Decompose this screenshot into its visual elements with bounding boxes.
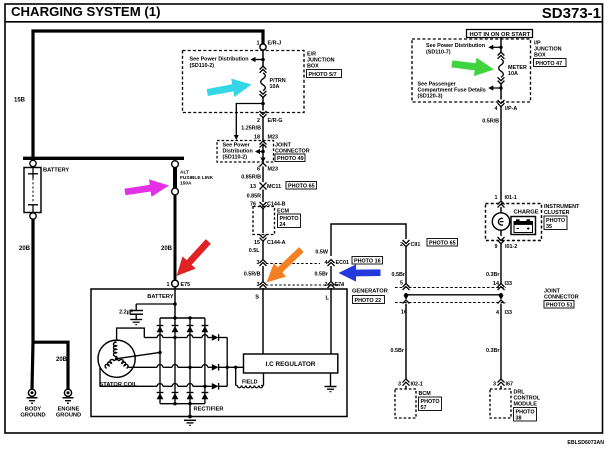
svg-text:See Power Distribution: See Power Distribution (190, 57, 249, 63)
wire inside ECM (262, 209, 264, 234)
svg-text:4: 4 (496, 310, 499, 316)
field coil (235, 367, 237, 385)
fuse P/TRN 10A (260, 66, 267, 97)
svg-text:10A: 10A (508, 71, 518, 77)
diode rectifier bottom leg2 (172, 393, 179, 400)
svg-text:(SD110-2): (SD110-2) (190, 63, 215, 69)
wire thick ALT feed down to E75 (174, 195, 177, 280)
diode rectifier top leg2 (172, 326, 179, 333)
svg-text:0.5W: 0.5W (315, 250, 328, 256)
svg-text:0.5Br: 0.5Br (392, 272, 406, 278)
svg-text:0.5Br: 0.5Br (391, 348, 405, 354)
connector I01-2 pin 9 (498, 237, 505, 244)
svg-text:5: 5 (400, 281, 403, 287)
annotation cyan arrow at P/TRN fuse (206, 75, 254, 101)
svg-text:I33: I33 (505, 310, 513, 316)
wire into DRL (500, 386, 502, 389)
svg-text:24: 24 (280, 222, 286, 228)
svg-text:CONNECTOR: CONNECTOR (544, 295, 579, 301)
svg-text:M23: M23 (268, 135, 279, 141)
svg-text:9: 9 (495, 244, 498, 250)
svg-text:E/R-G: E/R-G (268, 118, 283, 124)
svg-text:1: 1 (167, 282, 170, 288)
svg-text:20B: 20B (19, 246, 31, 252)
dashed connector line E74 (266, 284, 344, 286)
svg-text:PHOTO 5/7: PHOTO 5/7 (309, 72, 337, 78)
svg-text:0.5Br: 0.5Br (315, 272, 329, 278)
svg-text:6: 6 (257, 167, 260, 173)
BCM box dashed (395, 389, 416, 418)
annotation red arrow at E75 (170, 235, 215, 282)
svg-text:E75: E75 (181, 282, 191, 288)
svg-text:PHOTO 16: PHOTO 16 (354, 259, 381, 265)
svg-text:PHOTO 51: PHOTO 51 (546, 303, 573, 309)
svg-text:CII1: CII1 (411, 242, 421, 248)
wire 0.5Br to joint connector (405, 247, 407, 284)
svg-text:I67: I67 (506, 382, 514, 388)
svg-text:2: 2 (325, 282, 328, 288)
svg-text:38: 38 (516, 416, 522, 422)
wire phase C line to rectifier (100, 368, 157, 387)
node branch see passenger (500, 84, 502, 100)
svg-text:I/P-A: I/P-A (505, 106, 517, 112)
rectifier top rail (160, 317, 205, 319)
wire into BCM (405, 386, 407, 389)
ground rectifier to case (189, 404, 191, 417)
wire 0.5R/B down to cluster (500, 106, 502, 201)
node joint right (499, 293, 503, 297)
svg-text:BATTERY: BATTERY (43, 168, 69, 174)
diode rectifier top leg3 (187, 326, 194, 333)
svg-text:0.5R/B: 0.5R/B (482, 119, 499, 125)
svg-text:(SD120-3): (SD120-3) (418, 94, 443, 100)
diode rectifier bottom leg1 (157, 393, 164, 400)
svg-text:See Power Distribution: See Power Distribution (426, 43, 485, 49)
svg-text:CLUSTER: CLUSTER (544, 210, 570, 216)
svg-text:2: 2 (257, 118, 260, 124)
svg-text:BATTERY: BATTERY (147, 294, 173, 300)
svg-text:GROUND: GROUND (20, 413, 45, 419)
wire 0.5Br (330, 266, 332, 281)
svg-text:10A: 10A (270, 84, 280, 90)
svg-text:3: 3 (493, 382, 496, 388)
wire 1.25R/B (262, 118, 264, 142)
connector E/R-J pin 1 (260, 44, 266, 50)
node M23 mid (261, 150, 265, 154)
trio bus vertical (226, 338, 228, 387)
diode rectifier bottom leg4 (202, 393, 209, 400)
wire through cluster (500, 207, 502, 236)
wire from HOT box down (500, 38, 502, 53)
wire L up from E74 over to CII1 (331, 224, 406, 256)
svg-text:HOT IN ON OR START: HOT IN ON OR START (470, 32, 531, 38)
svg-text:GROUND: GROUND (56, 413, 81, 419)
node stator center (115, 357, 118, 360)
battery symbol (24, 168, 41, 213)
svg-text:PHOTO 22: PHOTO 22 (355, 298, 382, 304)
svg-text:EC01: EC01 (336, 260, 350, 266)
svg-text:1: 1 (257, 41, 260, 47)
annotation orange arrow at S pin (260, 243, 307, 289)
svg-text:PHOTO 65: PHOTO 65 (288, 184, 315, 190)
svg-text:SD373-1: SD373-1 (542, 5, 601, 22)
joint connector bus line (406, 294, 501, 296)
svg-text:15B: 15B (14, 98, 26, 104)
svg-text:CHARGING SYSTEM (1): CHARGING SYSTEM (1) (11, 4, 160, 19)
wire stator phase A lead (117, 328, 145, 340)
lamp charge indicator (492, 213, 509, 230)
svg-text:FUSIBLE LINK: FUSIBLE LINK (180, 175, 214, 181)
svg-text:I01-2: I01-2 (505, 244, 517, 250)
svg-text:4: 4 (325, 260, 328, 266)
svg-text:0.5R/B: 0.5R/B (244, 272, 261, 278)
svg-text:E/R-J: E/R-J (268, 41, 282, 47)
wire 0.5L (262, 241, 264, 259)
wire thick top run from battery bus to E/R-J (33, 31, 263, 158)
svg-text:FIELD: FIELD (242, 379, 258, 385)
svg-text:PHOTO 49: PHOTO 49 (277, 156, 304, 162)
wire L pin into generator (330, 288, 332, 354)
svg-text:MC11: MC11 (267, 184, 281, 190)
wire 0.5Br down to BCM (405, 304, 407, 380)
svg-text:57: 57 (421, 405, 427, 411)
svg-text:EBLSD6073AN: EBLSD6073AN (567, 440, 604, 446)
svg-text:I33: I33 (505, 281, 513, 287)
wire phase B line to rectifier (129, 364, 212, 367)
node fuse top branch (261, 58, 265, 62)
I/P junction box dashed outline (412, 39, 531, 102)
IC regulator box (244, 354, 338, 373)
fusible link ALT 150A (172, 161, 179, 168)
svg-text:CHARGE: CHARGE (514, 210, 539, 216)
generator box outline (91, 289, 347, 417)
wire thick battery negative down to body ground (32, 219, 33, 389)
svg-text:4: 4 (495, 106, 498, 112)
svg-text:RECTIFIER: RECTIFIER (194, 406, 224, 412)
node battery top terminal (30, 160, 36, 166)
stator winding vertical (114, 342, 117, 356)
battery pictogram (511, 217, 536, 235)
diode rectifier bottom leg3 (187, 393, 194, 400)
svg-text:150A: 150A (180, 181, 192, 187)
connector C144-A pin 15 (260, 235, 267, 242)
svg-text:BOX: BOX (534, 53, 546, 59)
node capacitor branch (173, 302, 177, 306)
capacitor 2.2uF (135, 304, 137, 310)
svg-text:2: 2 (400, 242, 403, 248)
svg-text:15: 15 (254, 240, 260, 246)
svg-text:13: 13 (250, 184, 256, 190)
wire 0.3Br to joint connector (500, 244, 502, 284)
svg-text:PHOTO 47: PHOTO 47 (536, 61, 563, 67)
wire trio output to regulator (227, 366, 243, 368)
ground engine ground symbol (63, 389, 74, 403)
svg-text:1: 1 (495, 195, 498, 201)
svg-text:PHOTO 65: PHOTO 65 (429, 241, 456, 247)
dashed connector line EC01 (266, 263, 320, 265)
svg-text:I.C REGULATOR: I.C REGULATOR (266, 361, 316, 368)
svg-text:E74: E74 (335, 282, 345, 288)
svg-text:2.2µF: 2.2µF (119, 310, 134, 316)
svg-text:C144-A: C144-A (267, 240, 286, 246)
connector I/P-A pin 4 (498, 100, 505, 107)
joint connector M23 symbol (260, 141, 267, 148)
svg-text:S: S (255, 295, 259, 301)
ECM box dashed (253, 207, 275, 235)
node joint left (404, 293, 408, 297)
DRL control module dashed box (490, 389, 511, 418)
annotation blue arrow at 0.5Br (339, 264, 381, 281)
diode rectifier top leg4 (202, 326, 209, 333)
svg-text:M23: M23 (268, 167, 279, 173)
svg-text:3: 3 (398, 382, 401, 388)
svg-text:20B: 20B (161, 246, 173, 252)
svg-text:35: 35 (546, 224, 552, 230)
wire 0.5R/B (262, 266, 264, 281)
node branch see power distribution (499, 46, 502, 49)
svg-text:18: 18 (254, 135, 260, 141)
svg-text:0.3Br: 0.3Br (486, 348, 500, 354)
connector E/R-G pin 2 (260, 111, 267, 118)
instrument cluster dashed box (486, 204, 542, 241)
wire branch from fuse bottom to see-power box (236, 104, 263, 136)
rectifier column lines (159, 318, 161, 404)
E/R junction box dashed outline (183, 51, 305, 113)
node battery bottom terminal (30, 213, 36, 219)
svg-text:MODULE: MODULE (514, 402, 538, 408)
ground regulator (330, 373, 332, 386)
annotation green arrow at METER fuse (451, 54, 496, 78)
wire B+ from E75 into box (174, 287, 176, 318)
wire 0.85R/B (262, 167, 264, 183)
svg-text:3: 3 (257, 282, 260, 288)
svg-text:20B: 20B (56, 357, 68, 363)
svg-text:BOX: BOX (307, 64, 319, 70)
ground body ground symbol (27, 389, 38, 403)
stator coil circle (98, 340, 135, 377)
stator winding lower-right (119, 359, 128, 368)
svg-text:GENERATOR: GENERATOR (352, 289, 388, 295)
stator winding lower-left (105, 359, 114, 368)
svg-text:0.5L: 0.5L (249, 248, 260, 254)
svg-text:0.85R: 0.85R (247, 194, 261, 200)
svg-text:(SD110-7): (SD110-7) (426, 49, 451, 55)
wire 0.3Br down to DRL (500, 304, 502, 380)
svg-text:1.25R/B: 1.25R/B (241, 126, 261, 132)
joint connector I33 dashed lines (395, 287, 506, 289)
trio diode 1 (212, 334, 219, 341)
svg-text:BCM: BCM (419, 391, 432, 397)
see power distribution box at M23 (217, 141, 274, 163)
rectifier bottom rail (160, 403, 205, 405)
svg-text:0.85R/B: 0.85R/B (241, 175, 261, 181)
svg-text:I02-1: I02-1 (411, 382, 423, 388)
wire 0.85R (262, 190, 264, 203)
svg-text:L: L (326, 296, 330, 302)
svg-text:0.3Br: 0.3Br (486, 272, 500, 278)
wire E/R-J to fuse (262, 50, 264, 66)
HOT IN ON OR START box (467, 30, 533, 39)
svg-text:C144-B: C144-B (267, 202, 286, 208)
wire stator neutral to rectifier (117, 352, 160, 358)
trio diode 2 (212, 364, 219, 371)
svg-text:I01-1: I01-1 (505, 195, 517, 201)
svg-text:ALT: ALT (180, 169, 189, 175)
node fuse bottom (261, 102, 265, 106)
fuse METER 10A (498, 52, 505, 84)
trio diode 3 (212, 383, 219, 390)
connector E75 pin 1 (172, 280, 179, 287)
svg-text:(SD110-2): (SD110-2) (223, 155, 248, 161)
diode rectifier top leg1 (157, 326, 164, 333)
wire phase A line to rectifier (144, 335, 212, 338)
annotation magenta arrow at ALT fusible link (124, 177, 171, 201)
wire thick branch to engine ground (34, 342, 68, 389)
wire S pin into generator (262, 288, 264, 354)
wire thick battery bus bar (23, 157, 184, 160)
svg-text:3: 3 (257, 260, 260, 266)
